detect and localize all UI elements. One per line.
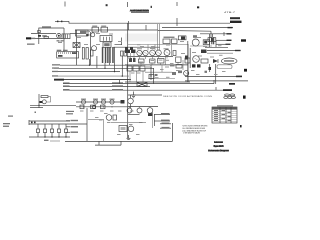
wire mesh extra legs: [148, 45, 183, 73]
svg-text:Schematic Diagram: Schematic Diagram: [208, 150, 228, 153]
vertical 153: [153, 68, 155, 84]
capacitor C1 plate1: [211, 37, 212, 44]
crossed diag1: [137, 82, 147, 86]
small tick 35 112: [35, 112, 37, 114]
bus label 1: [52, 64, 60, 65]
chain junction dots: [83, 106, 113, 107]
title AUTOMETER backing: [131, 10, 150, 12]
bus wire TB 4: [58, 75, 129, 77]
stage resistor Rc: [101, 105, 106, 109]
vertical 172: [172, 123, 174, 141]
small part marks 178: [178, 71, 182, 74]
junction dot c1: [150, 67, 151, 68]
meter M1: [221, 58, 237, 64]
box K6: [119, 126, 127, 132]
ground symbol: [131, 92, 136, 98]
cap symbol text: [205, 71, 208, 73]
edge marker B3: [244, 69, 247, 72]
stub wire r4: [160, 127, 171, 129]
table rows: [212, 111, 237, 121]
small caps D1: [208, 38, 211, 42]
bank cap 4: [57, 129, 60, 133]
stage chain wire: [76, 106, 128, 108]
terminal TB1 label: [230, 17, 240, 19]
junction A1: [57, 21, 58, 23]
arrowhead exit 50: [235, 50, 241, 51]
diode CR1: [38, 35, 41, 37]
bank branch 2: [44, 124, 46, 129]
stage resistor Ra: [80, 105, 84, 109]
connector PL1 sub: [32, 38, 35, 39]
junction dot c2: [150, 75, 151, 76]
wire exit 33: [200, 33, 231, 35]
bus wire TB 2: [54, 67, 154, 69]
chain top wire: [76, 101, 121, 103]
label under B1: [57, 40, 60, 41]
contact K4 bar3: [109, 37, 111, 41]
relay contact E2: [172, 39, 178, 44]
edge marker B2: [243, 96, 246, 99]
wire into Q17: [128, 114, 140, 116]
wire exit 47: [205, 46, 228, 48]
table cell marks: [214, 110, 231, 121]
hatched box inner mark2: [72, 52, 77, 54]
wire out lines 90: [63, 89, 228, 91]
transistor Q2: [92, 46, 97, 51]
R11 loop wire: [47, 97, 51, 102]
label 83 left: [63, 82, 70, 83]
box R8: [158, 59, 165, 64]
transformer T1 core: [106, 47, 108, 63]
vertical drop 211: [210, 31, 212, 37]
resistor R12: [149, 75, 154, 79]
transistor Q15: [106, 115, 112, 121]
wire out lines 83: [63, 83, 214, 85]
box beside Q15: [113, 115, 117, 120]
capacitor bank top rail: [29, 120, 70, 122]
labels above E1 E2: [164, 37, 175, 38]
relay K1 bar2: [65, 34, 67, 38]
value labels scatter mid-right: [131, 48, 226, 75]
wire arrow bus: [162, 27, 233, 29]
wire mesh row 72: [145, 71, 172, 73]
stage 2 label: [93, 99, 98, 100]
enclosure inner mark: [80, 31, 87, 34]
vertical rails right pair a: [187, 44, 189, 82]
resistor R1 vertical: [82, 48, 84, 60]
wire riser: [39, 28, 64, 44]
label above riser: [42, 26, 51, 27]
res network R5: [133, 58, 136, 62]
Q3 leads: [193, 35, 197, 38]
diode CR4: [203, 40, 210, 45]
arrowhead exit 44: [226, 44, 231, 45]
stage 4 label: [110, 99, 115, 100]
Q5 lead: [130, 95, 132, 98]
zone marker dot: [197, 6, 199, 8]
note small text left: [27, 44, 35, 45]
transistor Q10: [150, 50, 156, 56]
capacitor bank rail2: [29, 123, 87, 125]
transistor row QB: [137, 108, 142, 113]
table col line 1: [219, 107, 221, 123]
vertical net c: [215, 40, 217, 47]
component box crossed: [137, 82, 147, 86]
wire exit 50: [207, 50, 241, 52]
svg-text:Autometer: Autometer: [214, 141, 223, 144]
bank cap 3: [50, 129, 53, 133]
transistor Q1: [91, 33, 95, 37]
transistor Q13: [193, 56, 200, 63]
capacitor C9 bottom: [127, 135, 131, 140]
relay contact E1: [163, 39, 170, 44]
sheet ref 4TB-7: [224, 12, 236, 14]
heavy bus TB2: [60, 79, 131, 81]
row wire extension: [128, 105, 158, 107]
box CR5: [201, 59, 208, 63]
wire crossing tick: [128, 21, 130, 30]
dark caps E4: [197, 64, 201, 67]
relay K1: [62, 34, 70, 39]
notes block line1: [183, 126, 209, 128]
arrowhead right 1: [228, 27, 233, 28]
wire crossing tick 2: [176, 18, 178, 26]
choke L1: [121, 51, 124, 56]
parts table frame: [212, 107, 237, 123]
stub text r1: [161, 113, 170, 114]
cluster boxes row 66 b: [133, 66, 139, 71]
notes block line3: [182, 129, 206, 132]
title underline: [131, 11, 149, 13]
junction column: [150, 65, 152, 80]
vertical pair b: [159, 24, 161, 50]
wire exit 44: [216, 43, 230, 45]
wire lead Q4: [30, 104, 76, 106]
stage 1 label: [81, 99, 86, 100]
leg down t3: [104, 63, 106, 68]
junction tick 146: [145, 25, 147, 30]
plus mark bank2: [34, 122, 36, 124]
bank bottom drops: [38, 133, 66, 138]
transistor Q11: [156, 50, 162, 56]
tiny left margin mark r0: [8, 116, 13, 117]
note text inline: [163, 95, 213, 98]
stub wire r3: [160, 123, 171, 125]
arrowhead exit 33: [227, 33, 232, 34]
label 90 right: [112, 89, 123, 90]
motor B1: [57, 34, 61, 38]
zone tick 2: [127, 2, 129, 7]
fuse F1: [38, 31, 41, 33]
leg down t4: [108, 63, 110, 65]
wire mid bus extension: [158, 29, 211, 32]
title block backing1: [214, 141, 223, 143]
balloon refs row1 b: [230, 94, 235, 96]
dark caps E3: [192, 64, 196, 67]
table col line 3: [230, 107, 232, 123]
transistor Q5: [128, 98, 134, 104]
dark bits lower left of band: [125, 47, 128, 50]
module A1 marks: [104, 43, 109, 46]
vertical 187 long: [187, 41, 189, 82]
label A: [40, 101, 43, 103]
tiny left margin text r1: [3, 123, 10, 124]
labels above cluster: [128, 64, 142, 65]
wire mesh legs top: [131, 53, 168, 59]
choke L2: [124, 51, 127, 56]
node A stub: [55, 20, 69, 22]
wire mid top bus: [75, 29, 158, 31]
transistor Q8: [137, 50, 142, 55]
leg down t2: [96, 56, 98, 68]
dark dash right 83: [229, 83, 235, 85]
bottom wire inner: [95, 144, 121, 146]
table caption above: [217, 105, 233, 106]
title AUTOMETER: [130, 10, 149, 13]
label 86 right: [112, 85, 123, 86]
title block backing3: [208, 150, 229, 152]
stage 3 transistor: [101, 100, 105, 104]
zone numeral 8: [106, 4, 108, 6]
transformer T1 winding3: [109, 47, 111, 63]
input wire L2: [32, 38, 63, 40]
balloon refs row2 c: [231, 96, 235, 98]
transformer T1 core2: [107, 47, 109, 63]
wire mesh row 78: [148, 78, 175, 80]
relay K1 bar3: [67, 34, 69, 38]
stub text b3: [71, 132, 79, 133]
contact block K4: [100, 36, 112, 42]
bank left tick: [28, 120, 30, 125]
long vertical bus right of center: [127, 23, 129, 138]
wire shelf: [114, 46, 161, 48]
junction A2: [61, 21, 62, 23]
small vertical element: [173, 51, 176, 56]
transistor pair Q6 Q7: [125, 50, 130, 54]
tiny left margin text r2: [3, 126, 9, 127]
bottom vertical 99: [98, 141, 100, 145]
diode CR6 bar: [217, 59, 219, 63]
riser x39: [38, 94, 40, 108]
box R6: [139, 59, 145, 63]
small marks 171: [172, 72, 176, 75]
box R9: [176, 57, 181, 62]
box enclosure T-rect: [76, 30, 89, 36]
vertical 154: [153, 114, 155, 126]
label under K1: [61, 40, 64, 41]
res network R4: [129, 58, 132, 62]
stub wire b3: [66, 131, 70, 133]
enclosure link horizontal: [88, 119, 104, 121]
ground lead marks below bank: [44, 140, 49, 141]
dark part under QC: [148, 113, 153, 116]
vertical net a: [209, 34, 211, 47]
transistor row QA: [127, 108, 132, 113]
wire mesh row 64.9: [125, 64, 188, 66]
stub wire r2: [154, 120, 170, 122]
corner wire right: [115, 38, 122, 45]
hatched box inner mark: [58, 55, 63, 57]
resistor R3: [91, 50, 94, 56]
rounded module outline: [217, 65, 232, 69]
wire 95: [128, 94, 162, 96]
tick up 214: [213, 80, 215, 84]
label 90 left: [63, 89, 70, 90]
notes block line2: [182, 127, 205, 130]
chain sublabel row2: [66, 113, 73, 114]
wire exit 53: [207, 52, 233, 54]
edge marker B1: [241, 39, 246, 41]
svg-text:Type 4470: Type 4470: [213, 145, 224, 148]
bank cap 1: [36, 129, 39, 133]
label Pk: [155, 74, 158, 76]
box R10: [185, 58, 190, 63]
transistor Q4: [42, 100, 46, 104]
dark bits lower left of band 2: [130, 47, 133, 50]
balloon refs row2 a: [224, 96, 228, 98]
bank cap 2: [43, 129, 46, 133]
wire mesh legs bottom: [130, 62, 178, 82]
edge tick right notes: [240, 125, 242, 127]
rectifier CR2 triangle: [86, 34, 90, 37]
vertical rails right pair b: [189, 48, 191, 68]
stub wire r1: [154, 114, 170, 116]
plus mark bank: [31, 122, 33, 124]
wire top bus: [69, 21, 230, 23]
transformer T1 winding2: [105, 47, 107, 63]
stub text r4: [162, 127, 170, 128]
bias box R11: [41, 96, 48, 98]
label left of F2: [170, 65, 175, 66]
bank branch 4: [58, 124, 60, 129]
junction dot Q4: [38, 105, 39, 106]
title block backing2: [213, 145, 223, 147]
label pair above T1 b: [63, 50, 68, 51]
wire down mid: [89, 32, 91, 65]
label 86 left: [63, 85, 70, 86]
vertical 215: [215, 64, 217, 84]
wire 82 left: [125, 81, 190, 83]
ground lead line: [50, 140, 60, 142]
box with label F2: [176, 65, 182, 69]
transistor Q16: [128, 126, 134, 132]
label pair above T1: [57, 50, 62, 51]
resistor R2 vertical: [86, 48, 88, 60]
stub text r3: [162, 123, 170, 124]
stage resistor Rb: [91, 105, 96, 109]
relay K3: [101, 27, 108, 32]
cluster boxes row 66 c: [140, 66, 145, 71]
diode CR6: [213, 59, 218, 63]
vertical net b: [212, 34, 214, 37]
CR3 cross1: [73, 43, 80, 48]
bus wire TB 3: [54, 71, 120, 73]
table col line 2: [225, 107, 227, 123]
title block line2: [213, 145, 224, 148]
table header: [212, 107, 237, 110]
terminal TB1 label row2: [230, 21, 242, 23]
bus label 4: [52, 75, 58, 76]
notes block line4: [183, 132, 200, 135]
tick at 224: [223, 32, 225, 36]
label 83 right: [112, 82, 123, 83]
stage 5 dark module: [121, 100, 125, 104]
row legs: [130, 106, 151, 108]
tick 216: [215, 87, 217, 90]
connector PL1 label: [26, 37, 31, 39]
heavy bus label: [54, 79, 64, 81]
stage 2 transistor: [93, 100, 97, 104]
stage 3 label: [101, 99, 106, 100]
junction dots bus: [89, 65, 123, 77]
ballast module hatched box: [57, 52, 79, 58]
capacitor C1 plate2: [213, 37, 214, 44]
transistor Q9: [143, 50, 148, 55]
transistor interior marks: [138, 52, 198, 75]
jog vertical 119: [119, 80, 121, 84]
tick under K1: [58, 42, 62, 43]
relay K2: [92, 27, 99, 32]
arrow end 90: [223, 89, 232, 91]
leg down t1: [89, 59, 91, 65]
wire down left: [76, 30, 78, 65]
arrowhead exit 40: [227, 40, 232, 41]
zone tick 3: [176, 2, 178, 6]
value labels scatter bottom: [80, 111, 143, 136]
transistor Q12: [164, 50, 170, 56]
balloon refs row2 b: [228, 96, 232, 98]
dark box left edge: [185, 56, 188, 60]
title block line1: [214, 141, 223, 144]
dark box pair b: [131, 50, 136, 54]
value labels scatter top: [77, 31, 207, 47]
label CR1: [42, 35, 47, 36]
wire out lines 86: [63, 86, 150, 88]
stub wire b2: [66, 126, 70, 128]
transistor Q14: [184, 71, 189, 76]
svg-text:4TB-7: 4TB-7: [224, 12, 236, 14]
crossed diag2: [137, 82, 147, 86]
arrow label 76: [236, 76, 242, 78]
contact K4 bar1: [103, 37, 105, 41]
vertical 87: [86, 108, 88, 141]
lamp DS1 box: [178, 36, 186, 40]
zone tick 1: [64, 2, 66, 7]
input wire L1: [31, 33, 56, 35]
stub text b1: [71, 120, 79, 121]
hatch ticks: [59, 52, 77, 54]
transistor row QC: [147, 108, 153, 114]
lamp DS1 fill: [181, 36, 185, 39]
bottom vertical 121: [120, 141, 122, 145]
small caps D2: [213, 38, 216, 42]
bank branch 1: [37, 124, 39, 129]
meter M1 text: [224, 60, 234, 62]
K6 inner: [121, 127, 126, 130]
title note mark: [151, 6, 152, 8]
vertical pair a: [157, 24, 159, 50]
bank branch 5: [65, 124, 67, 129]
wire 76: [185, 76, 242, 78]
wire 81: [185, 80, 248, 82]
switch S1: [44, 36, 48, 38]
vertical feed: [63, 28, 65, 52]
motor B1 core: [58, 35, 60, 37]
transistor Q3: [192, 39, 199, 46]
stage 4 transistor: [110, 100, 114, 104]
grey scan band: [125, 34, 158, 42]
leg down t6: [121, 56, 123, 76]
